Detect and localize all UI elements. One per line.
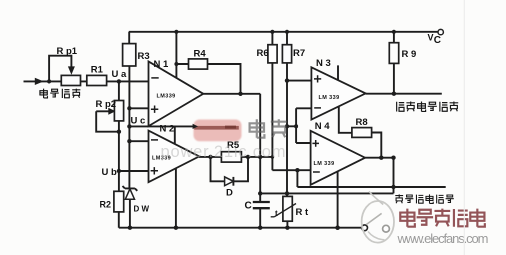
svg-text:LM 339: LM 339 <box>314 161 335 167</box>
svg-text:N 1: N 1 <box>154 59 170 70</box>
svg-text:R8: R8 <box>356 117 368 128</box>
svg-text:C: C <box>434 35 441 46</box>
svg-text:U c: U c <box>131 116 146 127</box>
svg-text:C: C <box>245 201 252 212</box>
svg-text:R p2: R p2 <box>96 99 117 110</box>
svg-text:R3: R3 <box>138 51 150 62</box>
svg-text:LM339: LM339 <box>157 93 176 99</box>
svg-text:R 9: R 9 <box>402 49 417 60</box>
svg-text:R t: R t <box>296 207 310 218</box>
svg-text:U b: U b <box>102 167 118 178</box>
svg-text:t: t <box>275 209 278 218</box>
svg-text:R p1: R p1 <box>57 46 78 57</box>
svg-text:N 3: N 3 <box>316 58 331 69</box>
svg-text:R2: R2 <box>100 200 112 210</box>
svg-text:power.21ic.com: power.21ic.com <box>161 143 286 161</box>
svg-text:D W: D W <box>134 205 150 214</box>
svg-text:LM 339: LM 339 <box>319 95 340 101</box>
svg-text:N 4: N 4 <box>315 121 331 132</box>
svg-text:N 2: N 2 <box>160 124 175 135</box>
svg-text:www.elecfans.com: www.elecfans.com <box>397 231 489 246</box>
svg-text:R1: R1 <box>91 65 104 76</box>
svg-text:R4: R4 <box>194 49 207 60</box>
svg-text:D: D <box>226 188 233 199</box>
svg-text:R6: R6 <box>257 48 269 59</box>
svg-text:U a: U a <box>112 69 128 80</box>
svg-text:V: V <box>428 33 434 43</box>
svg-text:R7: R7 <box>293 48 305 59</box>
